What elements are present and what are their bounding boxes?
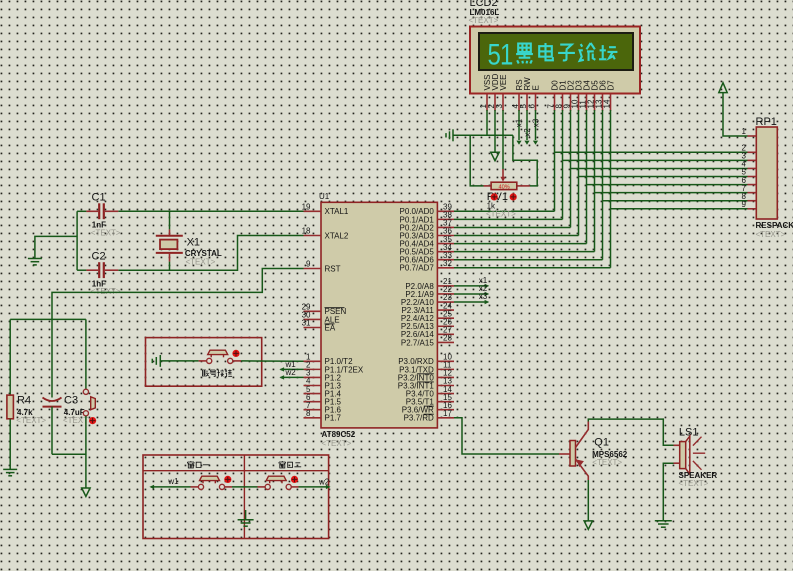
svg-text:<TEXT>: <TEXT> (16, 416, 46, 425)
svg-text:EA: EA (325, 323, 336, 332)
svg-text:XTAL2: XTAL2 (325, 231, 349, 240)
wire D0 to RP1 pin2 (555, 151, 748, 153)
wire XTAL1 row (118, 210, 303, 212)
pin 35 P0.4/AD4 (437, 243, 454, 245)
terminal w2 at P1.2 (281, 376, 304, 378)
svg-text:C1: C1 (92, 192, 106, 204)
wire D5 to RP1 pin7 (595, 192, 748, 194)
LCD text zi glyph (558, 45, 575, 61)
RV1 actuator dot 1 (491, 193, 498, 200)
svg-text:w2: w2 (318, 477, 330, 486)
svg-text:C3: C3 (64, 394, 78, 406)
svg-text:x3: x3 (532, 118, 541, 127)
wire rail to pot right (513, 135, 537, 186)
pin 38 P0.1/AD1 (437, 218, 454, 220)
svg-text:x3: x3 (479, 292, 488, 301)
button window2 (265, 484, 270, 489)
ground speaker (655, 521, 672, 527)
Q1 emitter with arrow (576, 459, 589, 480)
terminal x2 at P2.1 (454, 293, 487, 295)
wire D2 vertical (570, 110, 572, 227)
svg-text:<TEXT>: <TEXT> (322, 439, 352, 448)
button signal red dot (232, 350, 239, 357)
wire D0 to U1 P0.0 (454, 210, 555, 212)
wire P3.7 to Q1 base (454, 418, 559, 454)
LCD text lun glyph (580, 43, 596, 61)
pin 21 P2.0/A8 (437, 285, 454, 287)
terminal x3 arrow (533, 141, 538, 145)
wire D1 vertical (562, 110, 564, 219)
svg-text:3: 3 (495, 104, 504, 109)
pin 39 P0.0/AD0 (437, 210, 454, 212)
wire D2 to U1 P0.2 (454, 226, 571, 228)
wire XTAL2 riser from C2 row (118, 236, 303, 271)
wire VEE pin3 down to pot wiper (502, 110, 504, 170)
transistor Q1 (559, 453, 570, 455)
pin 36 P0.3/AD3 (437, 235, 454, 237)
box divider vertical (243, 455, 245, 539)
svg-text:40%: 40% (499, 184, 510, 190)
pin 24 P2.3/A11 (437, 309, 454, 311)
label 窗口一 (188, 461, 195, 468)
button signal (207, 358, 212, 363)
wire D3 to U1 P0.3 (454, 235, 579, 237)
ground window box (238, 520, 254, 526)
svg-text:R4: R4 (17, 394, 31, 406)
pin 37 P0.2/AD2 (437, 226, 454, 228)
terminal w2 right (326, 485, 331, 489)
crystal X1 (169, 211, 171, 229)
svg-text:U1: U1 (319, 192, 330, 201)
wire R4 top (9, 319, 11, 395)
box divider horizontal (143, 470, 329, 472)
wire R4 bottom (9, 419, 11, 470)
svg-text:RESPACK-8: RESPACK-8 (756, 221, 793, 230)
wire ground stem (245, 510, 247, 520)
svg-text:D7: D7 (607, 80, 616, 91)
RP1 pin 8 (748, 200, 757, 202)
RP1 pin 4 (748, 167, 757, 169)
wire D0 vertical (554, 110, 556, 211)
power terminal up arrow (719, 83, 727, 93)
RP1 pin 3 (748, 159, 757, 161)
svg-text:32: 32 (443, 259, 452, 268)
pin 28 P2.7/A15 (437, 341, 454, 343)
pin 14 P3.4/T0 (437, 393, 454, 395)
RP1 pin 9 (748, 208, 757, 210)
box signal-key border (146, 338, 262, 387)
svg-text:XTAL1: XTAL1 (325, 207, 349, 216)
ground near LCD pin1 (446, 129, 453, 141)
pin 5 P1.4 (304, 393, 322, 395)
wire D5 to U1 P0.5 (454, 251, 595, 253)
pin 26 P2.5/A13 (437, 325, 454, 327)
resistor RV1 body (491, 182, 517, 189)
RP1 pin 1 (748, 135, 757, 137)
wire left rail C1-C2 (76, 211, 78, 270)
wire D3 vertical (578, 110, 580, 236)
wire LCD pin6 E stub (535, 110, 537, 140)
reset button (85, 319, 87, 389)
wire LCD pin5 RW stub (526, 110, 528, 140)
LCD text dian glyph (539, 43, 553, 60)
wire ground to button (160, 360, 198, 362)
power terminal down arrow under Q1 (584, 521, 592, 529)
wire emitter down (587, 480, 589, 521)
svg-text:<TEXT>: <TEXT> (186, 257, 216, 266)
wire D6 to RP1 pin8 (603, 200, 748, 202)
pin 18 XTAL2 (304, 235, 322, 237)
box windows border (143, 455, 329, 539)
wire button bottom down (85, 416, 87, 488)
pin 22 P2.1/A9 (437, 293, 454, 295)
wire D4 to RP1 pin6 (587, 184, 748, 186)
pin 12 P3.2/INT0 (437, 376, 454, 378)
RP1 pin 6 (748, 184, 757, 186)
wire RST net (52, 269, 304, 398)
pin 13 P3.3/INT1 (437, 385, 454, 387)
terminal x1 at P2.0 (454, 285, 487, 287)
Q1 collector (576, 422, 589, 448)
resistor RV1 stub left (484, 185, 492, 187)
svg-text:Q1: Q1 (594, 437, 609, 449)
svg-text:x1: x1 (515, 118, 524, 127)
wire ground branch (35, 236, 77, 258)
pin 27 P2.6/A14 (437, 333, 454, 335)
svg-text:19: 19 (302, 203, 311, 212)
svg-text:<TEXT>: <TEXT> (756, 230, 786, 239)
terminal w1 left (149, 485, 154, 489)
ground R4 (3, 469, 17, 475)
wire D7 vertical (610, 110, 612, 268)
wire D5 vertical (594, 110, 596, 252)
svg-text:VEE: VEE (499, 74, 508, 90)
wire LCD pin4 RS stub (518, 110, 520, 140)
resistor RV1 stub right (517, 185, 530, 187)
label 取号按键 (202, 370, 209, 376)
pin 25 P2.4/A12 (437, 317, 454, 319)
pin 19 XTAL1 (304, 210, 322, 212)
wire VDD pin2 down (494, 110, 496, 152)
svg-text:28: 28 (443, 334, 452, 343)
resistor pack RP1 body (756, 127, 777, 219)
ground crystal caps (28, 259, 42, 265)
reset button red dot (89, 417, 96, 424)
svg-text:P3.7/RD: P3.7/RD (404, 414, 434, 423)
pin 17 P3.7/RD (437, 417, 454, 419)
svg-text:X1: X1 (187, 237, 200, 249)
pin 29 PSEN (304, 310, 322, 312)
terminal x3 at P2.2 (454, 301, 487, 303)
LCD text 51 (488, 37, 513, 71)
terminal w1 at P1.1 (281, 368, 304, 370)
svg-text:P0.7/AD7: P0.7/AD7 (400, 264, 435, 273)
wire button to P1.0 (233, 360, 241, 362)
svg-text:RP1: RP1 (756, 116, 777, 128)
RV1 actuator dot 2 (510, 193, 517, 200)
svg-text:RST: RST (325, 264, 341, 273)
RV1 wiper arrow (502, 169, 504, 178)
svg-text:<TEXT>: <TEXT> (91, 228, 121, 237)
pin 4 P1.3 (304, 385, 322, 387)
wire D2 to RP1 pin4 (571, 167, 748, 169)
pin 7 P1.6 (304, 409, 322, 411)
svg-text:18: 18 (302, 227, 311, 236)
ground in box (152, 355, 160, 367)
svg-text:AT89C52: AT89C52 (322, 430, 356, 439)
wire D6 vertical (602, 110, 604, 260)
wire speaker bottom to ground (663, 463, 673, 521)
svg-text:51: 51 (488, 37, 513, 71)
svg-text:x2: x2 (523, 128, 532, 137)
pin 16 P3.6/WR (437, 409, 454, 411)
svg-text:w2: w2 (285, 368, 297, 377)
label 窗口二 (279, 461, 286, 468)
button window1 red dot (224, 476, 231, 483)
button window1 (198, 484, 203, 489)
pin 10 P3.0/RXD (437, 360, 454, 362)
pin 33 P0.6/AD6 (437, 259, 454, 261)
svg-text:w1: w1 (167, 477, 179, 486)
pin 2 P1.1/T2EX (304, 368, 322, 370)
svg-text:9: 9 (306, 260, 311, 269)
pin 23 P2.2/A10 (437, 301, 454, 303)
pin 15 P3.5/T1 (437, 401, 454, 403)
pin 34 P0.5/AD5 (437, 251, 454, 253)
svg-text:1: 1 (742, 127, 747, 136)
wire rail branch to pot left (470, 135, 483, 186)
LCD text hei glyph (516, 44, 533, 64)
power terminal VDD down arrow (491, 152, 499, 160)
microcontroller U1 AT89C52 body (321, 202, 437, 428)
LCD text tan glyph (599, 45, 617, 60)
wire power to RP1 pin1 (723, 93, 748, 136)
svg-text:6: 6 (528, 104, 537, 109)
wire ground rail y135 (453, 134, 513, 136)
svg-text:31: 31 (302, 319, 311, 328)
terminal x2 arrow (524, 141, 529, 145)
pin 30 ALE (304, 318, 322, 320)
svg-text:9: 9 (742, 200, 747, 209)
svg-text:E: E (532, 85, 541, 90)
power terminal down arrow (82, 488, 90, 496)
RP1 pin 2 (748, 151, 757, 153)
wire D4 to U1 P0.4 (454, 243, 587, 245)
svg-text:<TEXT>: <TEXT> (592, 458, 622, 467)
svg-text:<TEXT>: <TEXT> (679, 479, 709, 488)
pin 32 P0.7/AD7 (437, 267, 454, 269)
LS1 sound waves (693, 437, 705, 470)
LCD LCD2 body (470, 27, 640, 94)
wire D7 to RP1 pin9 (611, 208, 748, 210)
wire D1 to RP1 pin3 (563, 159, 748, 161)
wire collector to speaker (588, 419, 673, 445)
pin 1 P1.0/T2 (304, 360, 322, 362)
wire D6 to U1 P0.6 (454, 259, 603, 261)
svg-text:17: 17 (443, 409, 452, 418)
wire D3 to RP1 pin5 (579, 176, 748, 178)
wire D1 to U1 P0.1 (454, 218, 563, 220)
svg-text:8: 8 (306, 409, 311, 418)
wire C3 to button bottom (52, 453, 86, 455)
svg-text:P1.7: P1.7 (325, 414, 342, 423)
pin 3 P1.2 (304, 376, 322, 378)
pin 11 P3.1/TXD (437, 368, 454, 370)
wire RST branch R4/button (10, 318, 86, 320)
wire to w2 terminal (291, 486, 298, 488)
terminal x1 arrow (516, 141, 521, 145)
svg-text:P2.7/A15: P2.7/A15 (401, 338, 434, 347)
pin 8 P1.7 (304, 417, 322, 419)
svg-text:<TEXT>: <TEXT> (486, 210, 516, 219)
wire VSS pin1 down (486, 110, 488, 135)
wire D7 to U1 P0.7 (454, 267, 611, 269)
wire C3 bottom (51, 407, 53, 455)
pin 9 RST (304, 268, 322, 270)
wire D4 vertical (586, 110, 588, 244)
RP1 pin 7 (748, 192, 757, 194)
RP1 pin 5 (748, 176, 757, 178)
svg-text:<TEXT>: <TEXT> (63, 416, 93, 425)
svg-text:<TEXT>: <TEXT> (469, 16, 499, 25)
pin 6 P1.5 (304, 401, 322, 403)
LCD screen (479, 33, 633, 70)
pin 31 EA (304, 327, 322, 329)
wire between buttons (225, 486, 232, 488)
svg-text:C2: C2 (92, 250, 106, 262)
svg-text:14: 14 (603, 99, 612, 108)
button window2 red dot (291, 476, 298, 483)
